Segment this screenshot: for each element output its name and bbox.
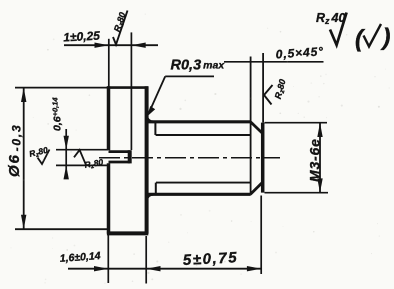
svg-text:Ø6-0,3: Ø6-0,3: [6, 123, 24, 177]
shaft top edge: [148, 120, 251, 123]
head right face / thread end line: [145, 86, 149, 234]
arrowhead 0,6 lower (points up): [64, 165, 69, 179]
bottom dimension line: [68, 268, 261, 270]
R0,3 leader: [150, 76, 166, 111]
head top edge: [107, 86, 148, 89]
thread runout vertical top: [154, 122, 156, 135]
extension line dia6 top: [15, 87, 107, 89]
bottom extension line at head left face: [107, 235, 109, 283]
parenthesis roughness check: [364, 24, 382, 47]
arrowhead 1,6 left (points right): [94, 266, 108, 271]
arrowhead 1dim right (points left): [131, 43, 145, 48]
slot bottom line: [109, 161, 131, 164]
roughness check mark on chamfer extension: [264, 85, 273, 105]
svg-text:R0,3max: R0,3max: [171, 58, 226, 74]
thread minor line top: [156, 134, 250, 136]
svg-text:5±0,75: 5±0,75: [182, 249, 238, 269]
shaft end face: [261, 123, 265, 193]
chamfer extension line outer: [262, 53, 264, 123]
dimension line 1+-0,25: [64, 44, 158, 46]
svg-text:1±0,25: 1±0,25: [63, 29, 101, 45]
head bottom edge: [107, 231, 148, 235]
svg-text:Rz40: Rz40: [316, 11, 345, 26]
roughness check mark slot middle: [74, 150, 86, 166]
arrowhead 5 left (points left): [146, 266, 160, 271]
dimension line M3-6e: [319, 123, 321, 192]
shaft bottom edge: [148, 193, 251, 196]
arrowhead 0,6 upper (points down): [64, 136, 69, 150]
arrowhead 5 right (points right): [247, 266, 261, 271]
chamfer bottom: [250, 182, 262, 194]
R0,3 note shelf: [165, 75, 214, 77]
fillet head-shaft bottom: [147, 194, 154, 200]
dimension line 0,6: [65, 129, 67, 177]
general roughness big check: [330, 13, 347, 46]
dimension line dia6: [23, 88, 25, 229]
M3 extension line bottom: [265, 192, 329, 194]
bottom extension line at head right face: [145, 236, 147, 284]
extension line 1 left: [108, 39, 110, 87]
thread minor line bottom: [156, 182, 250, 184]
roughness check mark slot left: [38, 150, 50, 165]
arrowhead dia6 up: [21, 88, 26, 102]
bottom extension line at shaft end: [260, 196, 262, 275]
fillet head-shaft top: [147, 116, 154, 122]
slot end face: [128, 150, 132, 163]
arrowhead 1dim left (points right): [95, 43, 109, 48]
chamfer note shelf 0,5x45: [224, 61, 324, 63]
chamfer extension line inner: [250, 57, 252, 195]
extension line 1 right: [130, 32, 132, 150]
chamfer top: [250, 122, 262, 134]
slot top line: [109, 150, 131, 153]
M3 extension line top: [265, 122, 328, 124]
arrowhead dia6 down: [21, 215, 26, 229]
head left face: [107, 86, 111, 234]
centerline axis: [99, 157, 280, 159]
slot width extension bottom: [56, 164, 108, 166]
svg-text:M3-6e: M3-6e: [307, 138, 323, 182]
slot width extension top: [56, 149, 108, 151]
arrowhead R0,3 leader: [147, 106, 155, 117]
thread runout vertical bottom: [155, 183, 157, 195]
roughness check mark on 1 dim line: [113, 11, 128, 45]
extension line dia6 bottom: [15, 228, 108, 230]
arrowhead M3 down: [317, 178, 322, 192]
arrowhead M3 up: [317, 123, 322, 137]
